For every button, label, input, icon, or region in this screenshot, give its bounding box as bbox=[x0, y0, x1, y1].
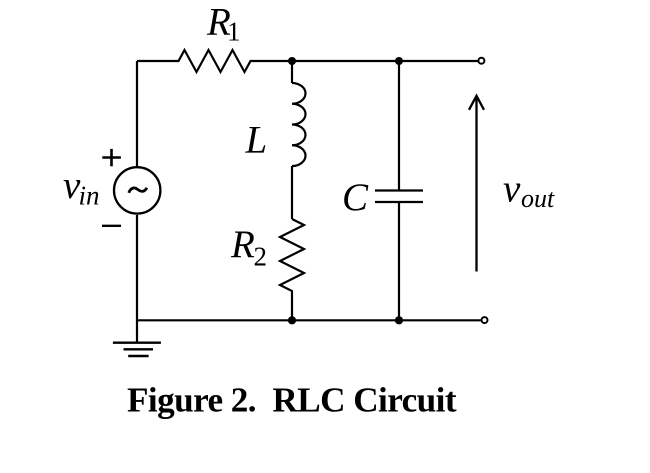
svg-text:v: v bbox=[503, 168, 521, 211]
svg-text:Figure 2. RLC Circuit: Figure 2. RLC Circuit bbox=[127, 381, 457, 420]
svg-text:1: 1 bbox=[227, 17, 241, 47]
svg-text:2: 2 bbox=[254, 242, 268, 272]
svg-text:C: C bbox=[342, 176, 369, 219]
svg-text:R: R bbox=[230, 223, 255, 266]
svg-text:L: L bbox=[245, 119, 268, 162]
svg-text:out: out bbox=[521, 184, 555, 213]
svg-text:in: in bbox=[79, 181, 100, 211]
